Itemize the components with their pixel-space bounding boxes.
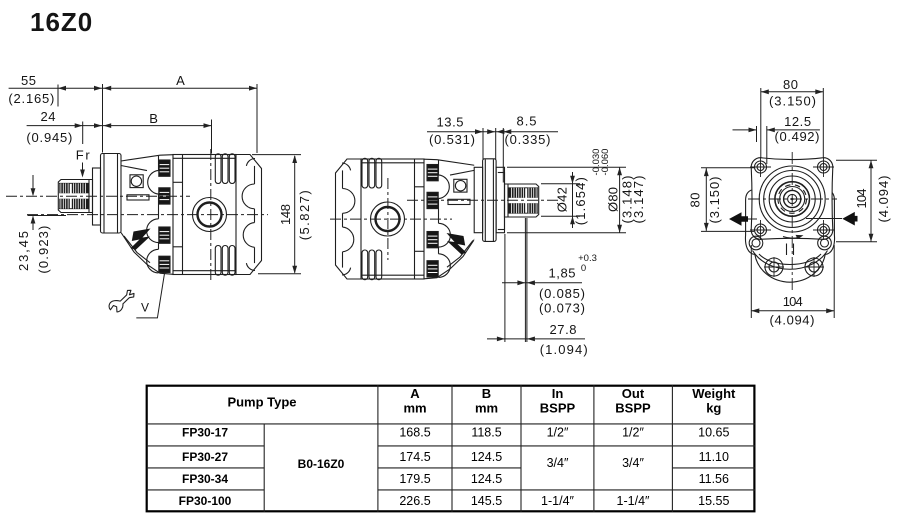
svg-text:80: 80 (687, 193, 702, 208)
svg-text:B: B (482, 386, 491, 401)
svg-text:FP30-34: FP30-34 (182, 472, 228, 486)
svg-text:(1.654): (1.654) (573, 177, 588, 225)
svg-text:V: V (141, 301, 149, 315)
svg-text:Out: Out (622, 386, 645, 401)
svg-text:Ø42: Ø42 (555, 187, 570, 212)
svg-text:(3.150): (3.150) (769, 94, 816, 109)
svg-text:11.56: 11.56 (699, 472, 729, 486)
svg-text:15.55: 15.55 (698, 494, 729, 508)
svg-text:FP30-100: FP30-100 (179, 494, 232, 508)
svg-text:(0.531): (0.531) (429, 132, 475, 147)
svg-text:80: 80 (783, 77, 798, 92)
svg-text:1,85: 1,85 (549, 266, 576, 281)
svg-text:145.5: 145.5 (471, 494, 502, 508)
svg-text:3/4″: 3/4″ (622, 456, 644, 470)
svg-text:3/4″: 3/4″ (547, 456, 569, 470)
svg-text:23,45: 23,45 (16, 231, 31, 271)
svg-text:1/2″: 1/2″ (547, 426, 569, 440)
svg-text:16Z0: 16Z0 (30, 7, 93, 37)
svg-text:24: 24 (41, 109, 56, 124)
svg-text:8.5: 8.5 (517, 114, 537, 129)
svg-text:124.5: 124.5 (471, 450, 502, 464)
svg-text:(5.827): (5.827) (297, 190, 312, 240)
svg-text:(0.335): (0.335) (505, 132, 551, 147)
svg-text:Ø80: Ø80 (605, 187, 620, 212)
svg-text:118.5: 118.5 (471, 426, 501, 440)
svg-text:mm: mm (403, 400, 426, 415)
svg-text:In: In (552, 386, 564, 401)
svg-text:104: 104 (854, 189, 869, 209)
svg-text:124.5: 124.5 (471, 472, 502, 486)
svg-text:12.5: 12.5 (784, 114, 811, 129)
svg-text:0: 0 (581, 263, 586, 274)
svg-text:(3.147): (3.147) (631, 176, 646, 224)
svg-text:B0-16Z0: B0-16Z0 (298, 457, 345, 471)
svg-text:(1.094): (1.094) (540, 342, 588, 357)
svg-text:A: A (410, 386, 420, 401)
svg-text:179.5: 179.5 (399, 472, 430, 486)
svg-text:BSPP: BSPP (540, 400, 576, 415)
svg-text:BSPP: BSPP (615, 400, 651, 415)
svg-text:(4.094): (4.094) (770, 313, 815, 328)
svg-text:B: B (149, 111, 158, 126)
svg-text:104: 104 (783, 294, 803, 309)
svg-text:(0.945): (0.945) (26, 130, 72, 145)
svg-text:(3.150): (3.150) (707, 177, 722, 224)
svg-text:(0.073): (0.073) (539, 301, 585, 316)
svg-text:(0.492): (0.492) (775, 129, 820, 144)
svg-text:226.5: 226.5 (399, 494, 430, 508)
svg-text:kg: kg (706, 400, 721, 415)
svg-text:Pump Type: Pump Type (227, 395, 296, 410)
svg-text:55: 55 (21, 73, 36, 88)
svg-text:13.5: 13.5 (437, 115, 464, 130)
svg-text:(4.094): (4.094) (876, 176, 891, 223)
svg-text:174.5: 174.5 (399, 450, 430, 464)
svg-text:Fr: Fr (76, 148, 91, 163)
svg-text:-0.060: -0.060 (600, 149, 611, 176)
svg-text:(0.085): (0.085) (539, 286, 585, 301)
svg-text:mm: mm (475, 400, 498, 415)
svg-text:(2.165): (2.165) (8, 91, 54, 106)
svg-text:1-1/4″: 1-1/4″ (617, 494, 650, 508)
svg-text:Weight: Weight (692, 386, 736, 401)
svg-text:168.5: 168.5 (399, 426, 430, 440)
svg-text:1/2″: 1/2″ (622, 426, 644, 440)
svg-text:11.10: 11.10 (699, 450, 729, 464)
svg-text:A: A (176, 73, 185, 88)
svg-text:148: 148 (278, 204, 293, 225)
svg-text:27.8: 27.8 (550, 322, 577, 337)
svg-text:(0.923): (0.923) (36, 226, 51, 274)
svg-text:FP30-27: FP30-27 (182, 450, 228, 464)
svg-text:10.65: 10.65 (698, 426, 729, 440)
svg-text:1-1/4″: 1-1/4″ (541, 494, 574, 508)
svg-text:FP30-17: FP30-17 (182, 426, 228, 440)
